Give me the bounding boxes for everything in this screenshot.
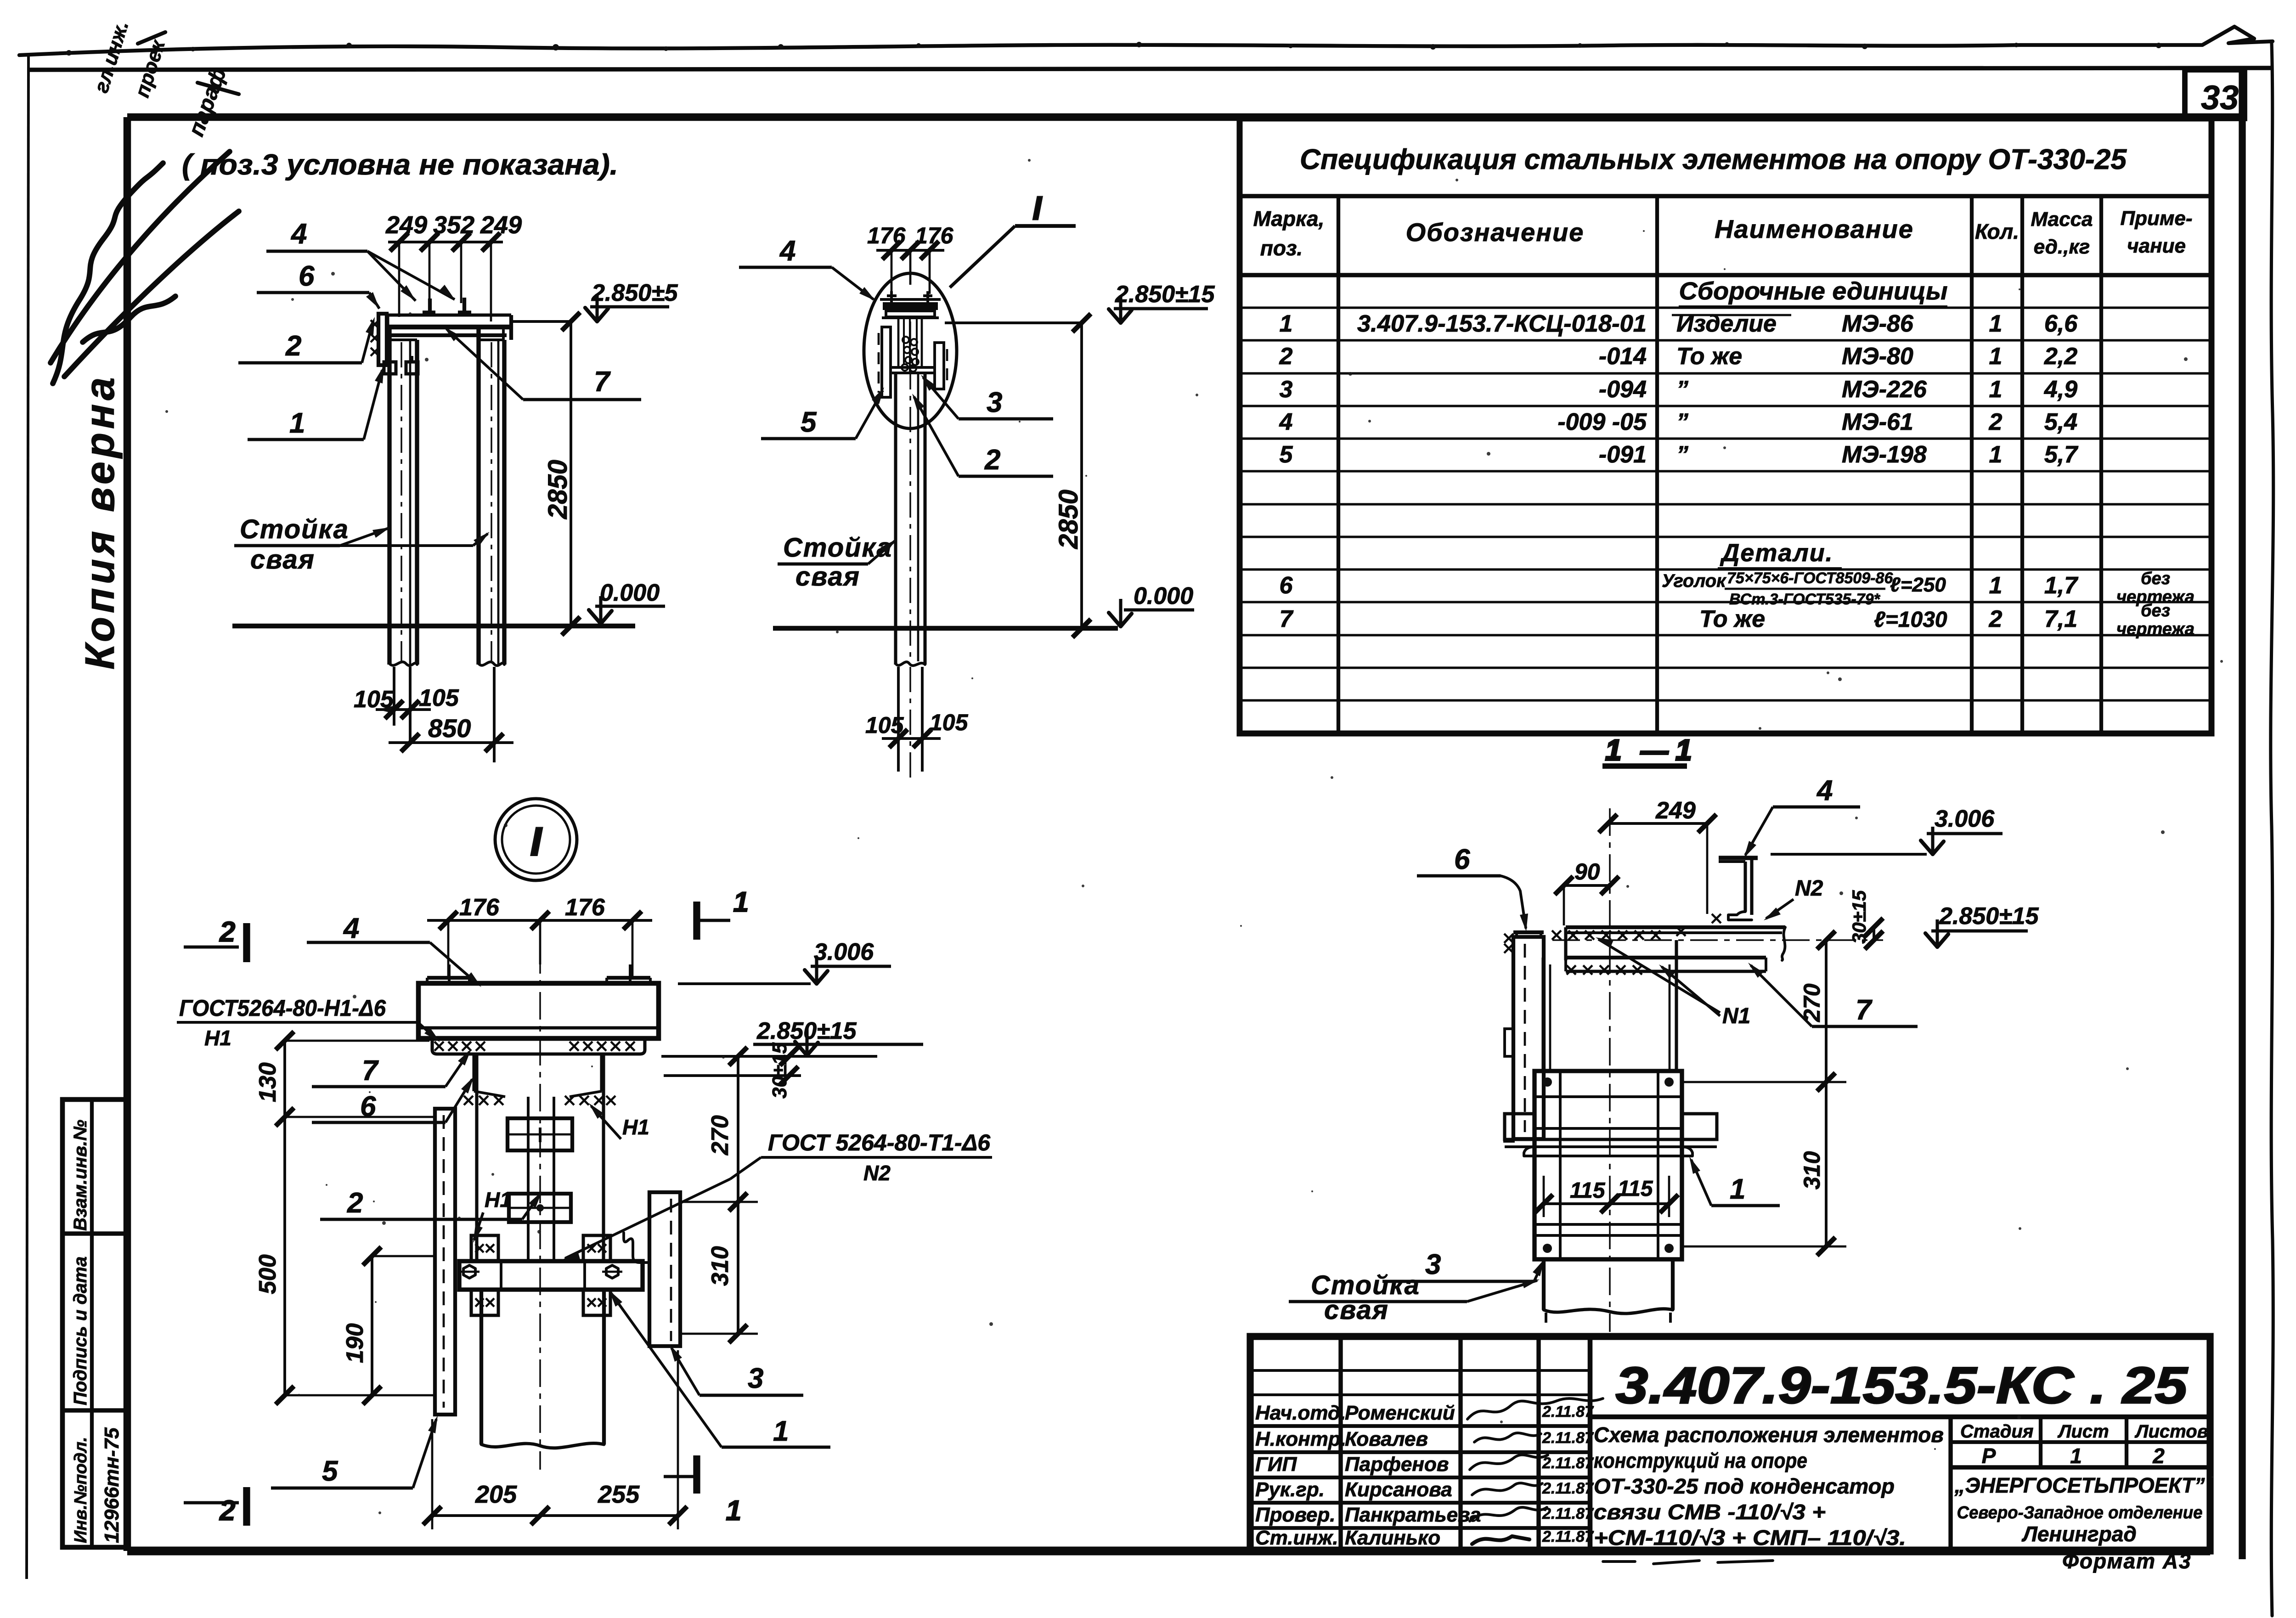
svg-text:190: 190 (342, 1323, 368, 1363)
view 1-1 vertical centerline (1609, 808, 1611, 1332)
svg-text:МЭ-86: МЭ-86 (1842, 310, 1914, 337)
svg-text:МЭ-80: МЭ-80 (1842, 343, 1913, 370)
view B ground line (773, 626, 1118, 631)
svg-text:параф: параф (184, 64, 231, 139)
view B top dim line (876, 249, 944, 252)
svg-text:Северо-Западное отделение: Северо-Западное отделение (1957, 1503, 2203, 1522)
svg-text:МЭ-198: МЭ-198 (1842, 441, 1927, 468)
svg-text:свая: свая (250, 545, 315, 575)
svg-text:Н.контр.: Н.контр. (1255, 1428, 1346, 1450)
svg-text:4: 4 (1279, 409, 1293, 435)
title block signature scrawls (1467, 1398, 1603, 1419)
svg-text:850: 850 (428, 714, 471, 743)
svg-text:4: 4 (779, 235, 795, 267)
svg-text:Листов: Листов (2134, 1421, 2208, 1442)
title block doc number row line (1590, 1415, 2210, 1420)
view B pile below cap (894, 373, 897, 665)
view 1-1 Z clip poz4 (1719, 856, 1758, 860)
svg-text:90: 90 (1574, 859, 1600, 885)
view A extension lines from dim to cap (398, 242, 401, 317)
svg-text:То же: То же (1676, 343, 1742, 370)
svg-text:Уголок: Уголок (1662, 571, 1726, 591)
view A left pile centerline (401, 342, 402, 661)
svg-text:4: 4 (1816, 775, 1833, 806)
svg-text:ОТ-330-25 под конденсатор: ОТ-330-25 под конденсатор (1594, 1474, 1895, 1498)
page number box 33 (2185, 70, 2245, 118)
view 1-1 dim 270/310 right chain (1825, 940, 1828, 1246)
view I pile below (480, 1291, 483, 1444)
svg-text:2: 2 (1279, 343, 1293, 370)
svg-text:без: без (2141, 569, 2170, 588)
svg-text:4: 4 (343, 913, 359, 944)
svg-text:1: 1 (1280, 310, 1293, 337)
svg-text:3: 3 (1280, 376, 1293, 403)
svg-text:1: 1 (1989, 572, 2003, 599)
svg-text:1: 1 (1675, 733, 1692, 767)
svg-text:7: 7 (1856, 994, 1873, 1026)
svg-text:1: 1 (1730, 1173, 1745, 1205)
svg-text:Р: Р (1982, 1444, 1996, 1468)
svg-text:12966тн-75: 12966тн-75 (101, 1427, 123, 1543)
svg-text:+СМ-110/√3 + СМП– 110/√3.: +СМ-110/√3 + СМП– 110/√3. (1594, 1526, 1906, 1550)
svg-text:3: 3 (987, 387, 1002, 418)
svg-text:176: 176 (459, 894, 500, 921)
view I left dim chain 130/500/190 (283, 1041, 286, 1395)
svg-text:ℓ=1030: ℓ=1030 (1874, 608, 1947, 632)
view B left angle bracket (882, 327, 891, 397)
svg-text:( поз.3 условна не показана).: ( поз.3 условна не показана). (182, 149, 618, 181)
svg-text:N2: N2 (1795, 876, 1823, 901)
view A ground line (232, 624, 635, 629)
svg-text:6,6: 6,6 (2044, 310, 2078, 337)
svg-text:Обозначение: Обозначение (1406, 218, 1585, 247)
svg-text:1: 1 (733, 886, 749, 918)
svg-text:”: ” (1676, 409, 1688, 435)
svg-text:3: 3 (748, 1363, 763, 1394)
svg-text:7,1: 7,1 (2044, 606, 2077, 632)
svg-text:500: 500 (254, 1254, 281, 1294)
svg-text:Провер.: Провер. (1255, 1504, 1335, 1526)
side strip table (Взам.инв.№ / Подпись и дата / Инв.№ подл.) (62, 1099, 127, 1547)
view B detail oval I (864, 273, 957, 428)
svg-text:6: 6 (1280, 572, 1293, 599)
view B pile break and tails (896, 662, 925, 665)
title block right section lines (1948, 1417, 1952, 1551)
view A right pile (476, 327, 480, 665)
svg-text:ед.,кг: ед.,кг (2034, 236, 2090, 258)
svg-text:7: 7 (594, 366, 611, 398)
sheet top wavy scan edge (19, 27, 2273, 55)
svg-text:3.006: 3.006 (814, 939, 874, 965)
svg-text:Парфенов: Парфенов (1345, 1453, 1449, 1476)
view I right plate poz3 (649, 1192, 680, 1346)
main drawing frame (127, 113, 2243, 121)
view I haunches under cap (472, 1054, 475, 1091)
sheet left edge line (27, 54, 28, 1579)
view B right angle bracket (935, 343, 944, 389)
svg-text:N2: N2 (863, 1161, 891, 1185)
view I left tall plate poz5 (435, 1109, 455, 1415)
svg-text:75×75×6-ГОСТ8509-86: 75×75×6-ГОСТ8509-86 (1727, 569, 1893, 587)
svg-text:Наименование: Наименование (1715, 214, 1914, 243)
view A pile break lines and tails (389, 662, 417, 665)
view B cap bolts above (890, 291, 893, 302)
svg-text:105: 105 (419, 685, 459, 711)
svg-text:6: 6 (299, 260, 315, 292)
svg-text:конструкций на опоре: конструкций на опоре (1594, 1449, 1807, 1472)
svg-text:Формат А3: Формат А3 (2062, 1549, 2192, 1573)
svg-text:ГОСТ5264-80-Н1-Δ6: ГОСТ5264-80-Н1-Δ6 (179, 995, 386, 1021)
view I weld xmarks under cap (434, 1042, 444, 1051)
view I detail circle mark (495, 799, 577, 880)
specification table (1240, 118, 2211, 733)
svg-text:105: 105 (865, 712, 904, 738)
svg-text:2850: 2850 (1054, 490, 1083, 549)
svg-text:-091: -091 (1599, 441, 1647, 468)
view 1-1 beam (poz7 channel) (1566, 925, 1785, 929)
view I pad plates with welds (471, 1235, 498, 1261)
svg-text:Стадия: Стадия (1960, 1421, 2033, 1442)
title block column lines (1338, 1336, 1343, 1551)
svg-text:1: 1 (1989, 310, 2003, 337)
svg-text:То же: То же (1699, 606, 1765, 632)
svg-text:Стойка: Стойка (240, 514, 349, 544)
signature scrawl top-left (51, 152, 239, 383)
svg-text:ГИП: ГИП (1255, 1453, 1297, 1476)
view I column flanges (475, 1054, 478, 1261)
svg-text:-009 -05: -009 -05 (1557, 409, 1647, 435)
view I hex bolts (463, 1265, 475, 1278)
svg-text:2.11.87: 2.11.87 (1542, 1528, 1594, 1545)
svg-text:Детали.: Детали. (1720, 539, 1833, 567)
svg-text:Взам.инв.№: Взам.инв.№ (70, 1120, 90, 1231)
svg-text:Нач.отд.: Нач.отд. (1255, 1402, 1346, 1424)
svg-text:-094: -094 (1599, 376, 1647, 403)
svg-text:2: 2 (219, 1495, 235, 1527)
view I cap top tabs (427, 976, 469, 980)
view 1-1 beam centerline (1552, 939, 1883, 941)
svg-text:Кирсанова: Кирсанова (1345, 1478, 1452, 1501)
svg-text:Ковалев: Ковалев (1345, 1428, 1428, 1450)
view A poz1 brackets on pile (384, 362, 396, 374)
svg-text:6: 6 (1454, 844, 1470, 875)
svg-text:Марка,: Марка, (1253, 207, 1325, 231)
view 1-1 pile below cap (1542, 1259, 1546, 1310)
svg-text:МЭ-226: МЭ-226 (1842, 376, 1927, 403)
svg-text:Масса: Масса (2031, 208, 2093, 231)
svg-text:свая: свая (795, 562, 860, 592)
svg-text:Инв.№подл.: Инв.№подл. (71, 1437, 90, 1543)
svg-text:Приме-: Приме- (2120, 207, 2192, 230)
view A top dimension line (388, 241, 503, 243)
svg-text:Н1: Н1 (622, 1115, 649, 1139)
view A poz4 clip angles on cap (423, 310, 435, 315)
view 1-1 weld xmarks on beam (1552, 930, 1561, 940)
svg-text:Роменский: Роменский (1345, 1402, 1455, 1424)
svg-text:Ленинград: Ленинград (2021, 1522, 2137, 1546)
svg-text:3: 3 (1425, 1249, 1441, 1280)
svg-text:1: 1 (726, 1495, 741, 1527)
svg-text:”: ” (1676, 376, 1688, 403)
svg-text:”: ” (1676, 441, 1688, 468)
svg-text:Лист: Лист (2057, 1421, 2109, 1442)
view 1-1 cap box assembly (1534, 1071, 1682, 1259)
view B cap top plate (880, 298, 941, 301)
svg-text:1: 1 (773, 1415, 789, 1447)
svg-text:3.407.9-153.5-КС . 25: 3.407.9-153.5-КС . 25 (1616, 1357, 2189, 1414)
svg-text:ℓ=250: ℓ=250 (1890, 574, 1946, 596)
svg-text:5: 5 (322, 1455, 338, 1487)
title block frame (1250, 1336, 2210, 1551)
svg-text:4,9: 4,9 (2044, 376, 2077, 403)
svg-text:ГОСТ 5264-80-Т1-Δ6: ГОСТ 5264-80-Т1-Δ6 (768, 1130, 991, 1156)
svg-text:7: 7 (362, 1055, 379, 1087)
svg-text:„ЭНЕРГОСЕТЬПРОЕКТ”: „ЭНЕРГОСЕТЬПРОЕКТ” (1954, 1473, 2205, 1497)
svg-text:115: 115 (1618, 1177, 1653, 1201)
view 1-1 cap corner bolts (1543, 1077, 1552, 1087)
svg-text:7: 7 (1280, 606, 1294, 632)
view I cross plate lower (509, 1194, 571, 1222)
svg-text:4: 4 (290, 218, 307, 250)
view B cap inner posts (897, 317, 900, 367)
svg-text:310: 310 (707, 1246, 733, 1286)
svg-text:2.850±5: 2.850±5 (591, 280, 678, 306)
svg-text:чертежа: чертежа (2116, 620, 2194, 639)
svg-text:2: 2 (1989, 409, 2003, 435)
svg-text:1: 1 (1605, 733, 1622, 767)
svg-text:30±15: 30±15 (768, 1042, 791, 1099)
svg-text:без: без (2141, 601, 2170, 620)
svg-text:1,7: 1,7 (2044, 572, 2078, 599)
view A right pile centerline (491, 342, 492, 661)
svg-text:2: 2 (347, 1187, 363, 1219)
svg-text:Н1: Н1 (204, 1026, 231, 1050)
view 1-1 left plate side lugs (1505, 1029, 1513, 1056)
svg-text:2850: 2850 (543, 460, 573, 519)
svg-text:2.11.87: 2.11.87 (1542, 1455, 1594, 1472)
svg-text:2: 2 (984, 444, 1000, 476)
svg-text:2: 2 (1989, 606, 2003, 632)
svg-text:130: 130 (254, 1062, 281, 1102)
svg-text:1: 1 (1989, 343, 2003, 370)
svg-text:поз.: поз. (1260, 236, 1303, 260)
svg-text:2,2: 2,2 (2044, 343, 2077, 370)
svg-text:гл.инж.: гл.инж. (90, 18, 133, 95)
svg-text:33: 33 (2201, 79, 2239, 117)
svg-text:чание: чание (2127, 235, 2186, 257)
svg-text:2: 2 (2152, 1444, 2165, 1468)
view I centerline vertical (539, 946, 541, 1470)
view I right dim chain 30±15 270 310 (737, 1056, 739, 1334)
title block row lines left (1250, 1369, 1590, 1372)
svg-text:1: 1 (2070, 1444, 2082, 1468)
svg-text:2.11.87: 2.11.87 (1542, 1480, 1594, 1497)
svg-text:Схема расположения элементов: Схема расположения элементов (1594, 1423, 1944, 1447)
svg-text:N1: N1 (1722, 1004, 1750, 1028)
svg-text:249: 249 (1655, 797, 1696, 824)
view I right plate hook bracket (624, 1233, 649, 1263)
sheet top rule line (27, 68, 2271, 70)
svg-text:2.11.87: 2.11.87 (1542, 1403, 1594, 1421)
view A vertical dim 2850 (570, 321, 572, 626)
svg-text:Н1: Н1 (485, 1188, 512, 1212)
svg-text:I: I (530, 820, 542, 864)
svg-text:3.407.9-153.7-КСЦ-018-01: 3.407.9-153.7-КСЦ-018-01 (1357, 310, 1647, 337)
svg-text:3.006: 3.006 (1935, 806, 1995, 832)
view B mid horizontal plate (892, 366, 934, 369)
view A left pile (387, 327, 391, 665)
svg-text:Подпись и дата: Подпись и дата (70, 1257, 90, 1405)
svg-text:2: 2 (285, 330, 301, 362)
svg-text:5,4: 5,4 (2044, 409, 2077, 435)
svg-text:Сборочные единицы: Сборочные единицы (1679, 277, 1948, 305)
view B weld dots chain (902, 337, 919, 372)
svg-text:0.000: 0.000 (1134, 583, 1193, 609)
svg-text:5,7: 5,7 (2044, 441, 2078, 468)
svg-text:205: 205 (475, 1481, 517, 1508)
view B vertical dim 2850 (1080, 323, 1083, 628)
svg-text:2: 2 (219, 916, 235, 948)
svg-text:-014: -014 (1599, 343, 1647, 370)
svg-text:Калинько: Калинько (1345, 1527, 1440, 1549)
svg-text:270: 270 (1799, 983, 1825, 1022)
view 1-1 column upper part (1541, 958, 1545, 1071)
svg-text:1: 1 (289, 407, 305, 439)
view I cross plate upper (508, 1118, 572, 1150)
svg-text:2.850±15: 2.850±15 (1115, 281, 1215, 308)
sheet right wavy edge (2271, 43, 2273, 1616)
svg-text:1: 1 (1989, 376, 2003, 403)
svg-text:I: I (1032, 190, 1043, 227)
view A left end plate poz6 (378, 314, 387, 365)
svg-text:0.000: 0.000 (600, 580, 660, 606)
svg-text:5: 5 (1280, 441, 1293, 468)
svg-text:Панкратьева: Панкратьева (1345, 1504, 1481, 1526)
svg-text:105: 105 (930, 710, 969, 735)
svg-text:255: 255 (598, 1481, 640, 1508)
view I bottom bracket beam (459, 1261, 643, 1290)
svg-text:МЭ-61: МЭ-61 (1842, 409, 1913, 435)
svg-text:Спецификация стальных элемен: Спецификация стальных элементов на опору… (1300, 144, 2127, 175)
svg-text:310: 310 (1799, 1151, 1825, 1190)
view A cap plate (оголовок) (388, 313, 511, 316)
svg-text:Копия верна: Копия верна (77, 374, 123, 670)
svg-text:—: — (1640, 735, 1669, 766)
svg-text:1: 1 (1989, 441, 2003, 468)
svg-text:2.11.87: 2.11.87 (1542, 1505, 1594, 1522)
svg-text:Рук.гр.: Рук.гр. (1255, 1478, 1325, 1501)
view I cap assembly (418, 983, 659, 1038)
svg-text:Ст.инж.: Ст.инж. (1255, 1527, 1338, 1549)
svg-text:176: 176 (565, 894, 605, 921)
svg-text:связи СМВ -110/√3 +: связи СМВ -110/√3 + (1594, 1500, 1826, 1524)
svg-text:Кол.: Кол. (1975, 220, 2019, 243)
svg-text:270: 270 (707, 1115, 733, 1156)
svg-text:свая: свая (1324, 1295, 1389, 1325)
svg-text:2.850±15: 2.850±15 (1939, 903, 2039, 930)
view 1-1 side lugs of cap (1505, 1114, 1534, 1139)
svg-text:115: 115 (1570, 1178, 1606, 1203)
view I top dim line (427, 919, 652, 922)
scan noise speckles (165, 159, 2223, 1514)
svg-text:2.11.87: 2.11.87 (1542, 1429, 1594, 1447)
